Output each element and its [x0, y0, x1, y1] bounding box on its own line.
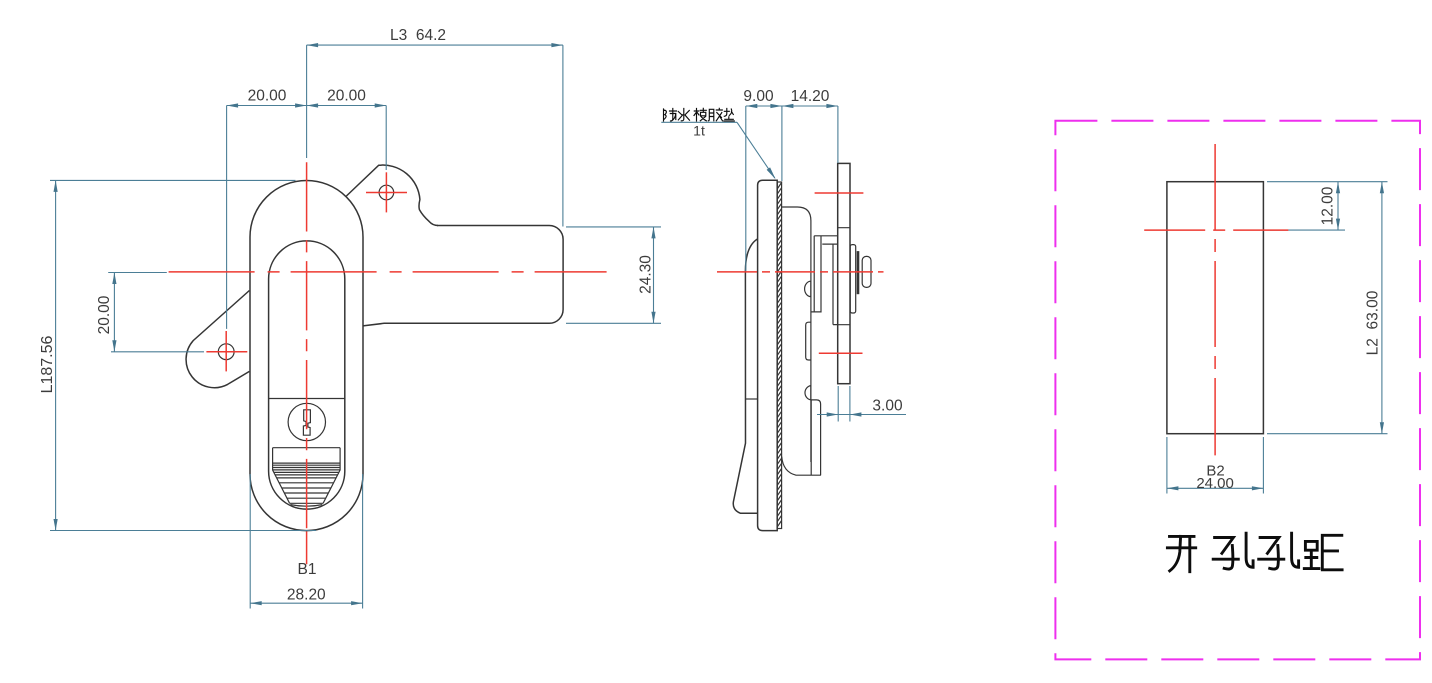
front view: inner recess stadium	[269, 241, 345, 509]
cutout view: horizontal centerline	[1144, 229, 1288, 231]
svg-text:24.00: 24.00	[1196, 475, 1234, 492]
front view: upper-right mounting ear	[346, 165, 438, 225]
note text xiang	[694, 108, 706, 121]
side view: upper bracket lines	[811, 236, 837, 325]
dimension L2 63.00	[1267, 182, 1388, 434]
side view: shaft nut knob	[862, 256, 871, 287]
front view: vertical centerline lower tail	[306, 532, 308, 565]
side view: washer	[857, 251, 860, 294]
front view: grip bottom arc	[290, 505, 322, 507]
svg-text:24.30: 24.30	[638, 255, 655, 294]
front view: upper ear hole	[379, 185, 394, 200]
svg-text:20.00: 20.00	[248, 88, 287, 105]
note text dian	[724, 109, 735, 122]
dimension B1 28.20	[250, 474, 362, 609]
front view: upper ear hole centermark	[366, 172, 407, 212]
svg-text:28.20: 28.20	[287, 587, 326, 604]
side view: main centerline	[717, 271, 884, 273]
front view: lower-left mounting ear	[186, 291, 249, 388]
front view: lower ear hole centermark	[206, 331, 247, 371]
svg-text:20.00: 20.00	[327, 88, 366, 105]
side view: cam mounting plate	[838, 163, 850, 383]
caption kai kong kong ju	[1167, 533, 1342, 572]
side view: housing block	[782, 207, 811, 462]
front view: outer body stadium	[250, 181, 363, 531]
svg-text:20.00: 20.00	[96, 295, 113, 334]
front view: key cylinder circle	[288, 403, 325, 440]
dimension 9.00 / 14.20	[743, 88, 837, 271]
side view: face plate	[758, 180, 778, 530]
svg-text:L3 64.2: L3 64.2	[390, 27, 446, 44]
side view: rubber gasket outline	[777, 182, 781, 529]
cutout view: rectangular hole	[1167, 182, 1264, 434]
note text jiao	[708, 108, 722, 121]
dimension 24.30	[566, 227, 661, 323]
cutout view: vertical centerline	[1214, 144, 1216, 455]
side view: handle lever silhouette	[733, 239, 757, 513]
front view: grip ribs	[273, 463, 341, 503]
side view: handle parting line	[746, 398, 758, 400]
svg-text:L187.56: L187.56	[39, 335, 56, 393]
leader note waterproof rubber gasket 1t	[661, 108, 775, 179]
caption char kong 1	[1213, 533, 1253, 569]
svg-text:L2 63.00: L2 63.00	[1365, 290, 1382, 355]
front view: recess separator line	[269, 398, 345, 400]
caption char kong 2	[1259, 533, 1299, 569]
front view: grip top line	[273, 447, 341, 449]
dimension 3.00	[817, 386, 906, 422]
dimension L3 64.2	[307, 27, 563, 227]
side view: gasket hatching	[777, 183, 781, 528]
dimension B2 24.00	[1167, 437, 1264, 494]
dimension 20.00 vertical left	[96, 273, 204, 352]
svg-text:14.20: 14.20	[791, 88, 830, 105]
side view: boss bump lower	[805, 386, 811, 400]
cutout view: panel boundary (magenta dashed)	[1055, 121, 1420, 660]
caption char kai	[1167, 536, 1195, 571]
front view: cam arm outline	[363, 226, 563, 326]
front view: grip right edge	[323, 448, 340, 504]
side view: lower hole centermark	[819, 352, 863, 354]
svg-text:12.00: 12.00	[1320, 186, 1337, 225]
side view: lower bracket	[811, 400, 820, 475]
front view: horizontal centerline	[169, 271, 607, 273]
front view: keyhole slot	[303, 410, 310, 435]
dimension 20.00 / 20.00 top	[227, 88, 387, 329]
note text shui	[678, 109, 689, 121]
svg-text:9.00: 9.00	[743, 88, 774, 105]
svg-text:1t: 1t	[693, 123, 705, 139]
front view: lower ear hole	[218, 344, 234, 360]
side view: shaft collar	[850, 245, 856, 313]
dimension L1 87.56 left	[39, 180, 316, 530]
side view: bottom foot	[782, 457, 821, 476]
side view: boss bump upper	[805, 281, 811, 296]
svg-text:3.00: 3.00	[872, 398, 903, 415]
note text fang	[664, 109, 677, 122]
side view: upper hole centermark	[815, 192, 864, 194]
caption char ju	[1304, 535, 1342, 570]
side view: cam plate section lines	[838, 228, 850, 325]
front view: vertical centerline	[306, 162, 308, 529]
side view: pawl bar	[806, 322, 812, 360]
front view: grip left edge	[273, 448, 290, 504]
dimension 12.00	[1267, 182, 1388, 230]
